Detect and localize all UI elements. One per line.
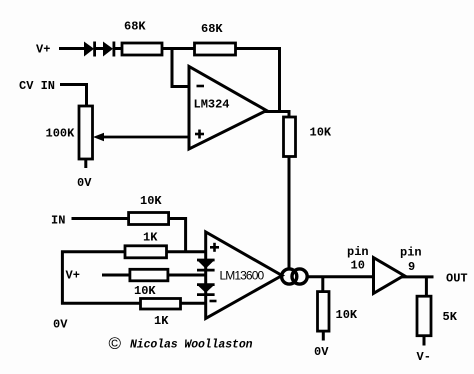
svg-text:V+: V+ xyxy=(66,269,80,283)
svg-text:10K: 10K xyxy=(310,126,332,140)
resistor R9 5K xyxy=(417,296,431,336)
resistor R7 1K xyxy=(141,299,181,310)
svg-text:100K: 100K xyxy=(46,127,76,141)
svg-text:CV IN: CV IN xyxy=(19,79,55,93)
resistor R3 10K xyxy=(284,117,296,157)
linearizing diode D3 xyxy=(197,260,215,270)
resistor R4 10K xyxy=(129,213,169,225)
svg-text:LM13600: LM13600 xyxy=(220,269,265,283)
svg-text:V+: V+ xyxy=(36,43,50,57)
wire R5 to OTA plus input xyxy=(167,250,207,253)
diode D2 xyxy=(103,42,115,57)
svg-text:68K: 68K xyxy=(124,20,146,34)
minus sign U2 xyxy=(210,300,217,303)
wire left rail to R7 xyxy=(61,302,141,305)
wire ring to buffer input xyxy=(308,275,375,278)
resistor R5 1K xyxy=(125,246,167,258)
wire CV IN to pot top xyxy=(60,85,87,108)
wire R4 to plus-input junction xyxy=(169,219,186,252)
wire R9 to V- xyxy=(423,336,426,346)
svg-text:10K: 10K xyxy=(140,194,162,208)
OTA U2 LM13600 xyxy=(206,232,282,318)
wire junction to op-amp inverting input xyxy=(172,49,190,87)
svg-text:IN: IN xyxy=(51,214,65,228)
buffer U3 xyxy=(374,258,405,294)
svg-text:pin: pin xyxy=(400,246,422,260)
svg-text:pin: pin xyxy=(347,245,369,259)
wire node down to R8 xyxy=(321,277,324,293)
svg-text:1K: 1K xyxy=(143,231,158,245)
resistor R2 68K xyxy=(195,43,236,55)
wire output node to resistor R3 xyxy=(288,112,291,119)
wire IN to R4 xyxy=(72,217,130,220)
svg-text:10K: 10K xyxy=(336,308,358,322)
wire R2 to feedback corner xyxy=(236,49,280,113)
label pin 10 xyxy=(347,245,369,273)
svg-text:0V: 0V xyxy=(314,345,329,359)
wire R3 down to output ring node xyxy=(288,157,291,270)
wire U1 output xyxy=(264,110,291,113)
resistor R6 10K xyxy=(130,269,168,281)
left 0V rail xyxy=(61,251,64,305)
wire pot bottom to 0V xyxy=(84,159,87,168)
output ring symbol (double circle) xyxy=(282,269,308,284)
wire buffer output to OUT xyxy=(402,275,434,278)
svg-text:68K: 68K xyxy=(201,22,223,36)
linearizing diode D4 xyxy=(197,285,215,295)
diode D1 xyxy=(84,42,96,57)
minus sign U1 xyxy=(197,85,205,88)
copyright xyxy=(109,334,253,353)
plus sign U1 xyxy=(195,130,204,139)
svg-text:0V: 0V xyxy=(53,318,68,332)
wire R6 to diode junction xyxy=(168,274,206,277)
wire R8 to 0V xyxy=(322,331,325,340)
op-amp U1 LM324 xyxy=(189,67,267,150)
wire V+ to R6 xyxy=(102,274,130,277)
svg-text:©: © xyxy=(109,334,122,353)
wire R7 to OTA minus input xyxy=(181,302,207,305)
wire from V+ to diode D1 xyxy=(59,47,85,50)
wire R1 to R2 with junction xyxy=(162,47,195,50)
svg-text:5K: 5K xyxy=(443,310,458,324)
wiper arrow into pot xyxy=(93,133,190,142)
svg-text:LM324: LM324 xyxy=(194,98,230,112)
label pin 9 xyxy=(400,246,422,275)
svg-text:0V: 0V xyxy=(77,176,92,190)
wire D2 to resistor R1 xyxy=(115,47,123,50)
svg-text:Nicolas Woollaston: Nicolas Woollaston xyxy=(130,339,253,352)
wire node down to R9 xyxy=(425,277,428,297)
svg-text:1K: 1K xyxy=(154,314,169,328)
svg-text:OUT: OUT xyxy=(446,272,468,286)
plus sign U2 xyxy=(210,243,219,252)
svg-text:V-: V- xyxy=(417,350,431,364)
resistor R1 68K xyxy=(122,43,162,55)
wire between D1 and D2 xyxy=(96,47,104,50)
potentiometer 100K xyxy=(79,106,93,159)
svg-text:9: 9 xyxy=(408,260,415,274)
resistor R8 10K xyxy=(318,292,330,332)
wire left rail to R5 xyxy=(61,250,125,253)
svg-text:10: 10 xyxy=(351,259,365,273)
svg-text:10K: 10K xyxy=(134,284,156,298)
